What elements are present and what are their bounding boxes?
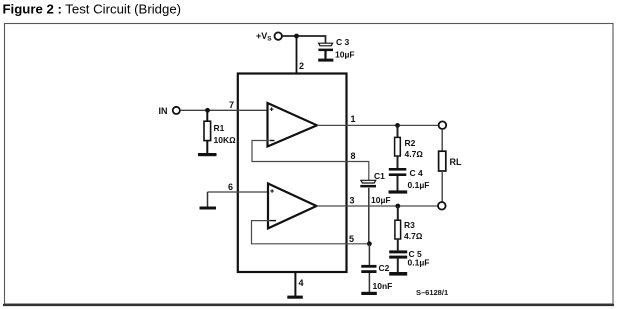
wire pin 2 (296, 36, 298, 74)
svg-text:0.1µF: 0.1µF (408, 180, 430, 190)
svg-text:Figure 2 : Test Circuit (Bridg: Figure 2 : Test Circuit (Bridge) (3, 2, 182, 17)
capacitor C4 (389, 168, 407, 191)
svg-text:4: 4 (299, 278, 304, 288)
C1 value labels (371, 171, 391, 205)
junction out2/R3 (395, 204, 400, 209)
capacitor C5 (389, 250, 407, 272)
svg-text:S–6128/1: S–6128/1 (416, 288, 448, 297)
svg-text:R1: R1 (214, 123, 225, 133)
svg-text:C2: C2 (379, 263, 390, 273)
wire U1A feedback: - input to pin 8 (252, 141, 347, 162)
svg-text:10µF: 10µF (335, 50, 355, 60)
svg-text:3: 3 (350, 196, 355, 206)
C4 value labels (408, 168, 430, 190)
svg-text:10KΩ: 10KΩ (214, 135, 237, 145)
junction IN/R1 (205, 108, 210, 113)
capacitor C3 (318, 43, 333, 59)
svg-text:5: 5 (349, 234, 354, 244)
svg-text:8: 8 (351, 151, 356, 161)
svg-text:IN: IN (159, 106, 168, 116)
op-amp U1B (268, 184, 317, 229)
C5 value labels (408, 249, 430, 268)
svg-text:10µF: 10µF (371, 195, 391, 205)
capacitor C1 (360, 180, 376, 244)
wire IN to op-amp U1A + input (pin 7) (180, 109, 268, 111)
R2 value labels (405, 138, 424, 159)
wire op-amp U1A output (pin 1) to output node (317, 124, 439, 126)
node +Vs terminal (256, 31, 282, 43)
ground (pin 6) (200, 207, 217, 210)
wire pin 6 to ground (208, 192, 269, 207)
svg-text:R2: R2 (405, 138, 416, 148)
svg-text:C 3: C 3 (336, 37, 350, 47)
svg-text:4.7Ω: 4.7Ω (405, 149, 424, 159)
svg-text:4.7Ω: 4.7Ω (404, 231, 423, 241)
junction pin5/C1/C2 (367, 241, 372, 246)
svg-text:6: 6 (228, 182, 233, 192)
node output terminal 1 (439, 121, 447, 129)
ground (C4) (389, 190, 408, 193)
ground (C5) (389, 272, 407, 276)
wire op-amp U1B output (pin 3) to output node (317, 205, 439, 207)
wire pin 4 (294, 273, 296, 296)
resistor R2 (395, 125, 401, 168)
R1 value labels (214, 123, 237, 145)
ground (pin 4) (287, 296, 303, 299)
resistor R3 (395, 206, 401, 250)
ground (C2) (361, 292, 377, 295)
wire pin 8 to C1 (347, 162, 369, 181)
resistor R1 (204, 110, 211, 153)
node IN terminal (159, 106, 180, 116)
svg-text:RL: RL (450, 157, 462, 167)
wire U1B feedback: - input to pin 5 (252, 221, 347, 244)
svg-text:C1: C1 (374, 171, 385, 181)
R3 value labels (404, 220, 423, 241)
svg-text:R3: R3 (404, 220, 415, 230)
svg-text:1: 1 (351, 114, 356, 124)
C2 value labels (373, 263, 393, 291)
svg-text:C 4: C 4 (410, 168, 424, 178)
svg-text:+VS: +VS (256, 31, 272, 43)
C3 value labels (335, 37, 355, 60)
svg-text:10nF: 10nF (373, 281, 393, 291)
IC box U1 (238, 74, 347, 273)
svg-text:0.1µF: 0.1µF (408, 258, 430, 268)
resistor RL (439, 129, 446, 202)
svg-text:2: 2 (299, 61, 304, 71)
capacitor C2 (361, 244, 376, 292)
junction +Vs/pin2 (294, 34, 299, 39)
junction out1/R2 (395, 123, 400, 128)
ground (C3) (318, 59, 333, 62)
ground (R1) (198, 153, 217, 156)
node output terminal 2 (438, 202, 446, 210)
wire +Vs to C3 (282, 36, 326, 43)
wire pin 5 to C2 (347, 243, 370, 245)
op-amp U1A (268, 103, 318, 147)
svg-text:7: 7 (229, 100, 234, 110)
